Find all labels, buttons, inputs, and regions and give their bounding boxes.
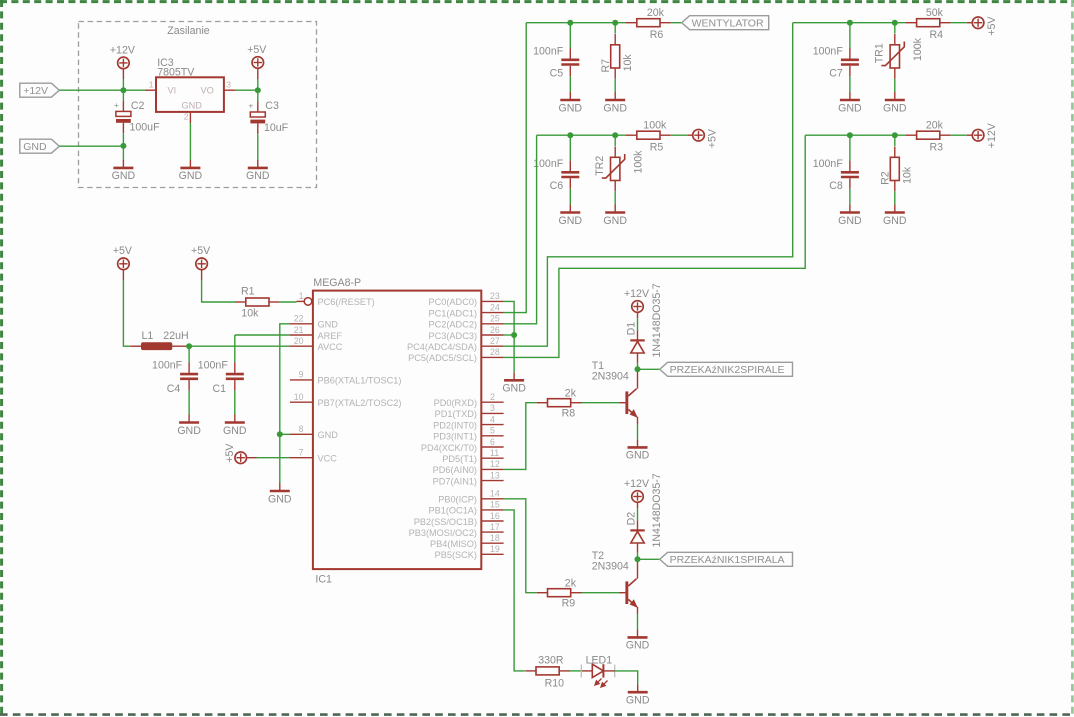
svg-text:+5V: +5V	[247, 44, 267, 56]
ground below C8	[838, 205, 862, 227]
svg-text:19: 19	[490, 544, 500, 554]
IC1 left pin 7 VCC	[290, 457, 313, 459]
svg-text:PC2(ADC2): PC2(ADC2)	[429, 320, 478, 330]
svg-text:6: 6	[490, 437, 495, 447]
ground below IC3	[179, 160, 203, 182]
svg-text:+: +	[114, 100, 119, 110]
svg-text:PC0(ADC0): PC0(ADC0)	[429, 297, 478, 307]
wire emitter of T1 to ground	[637, 417, 639, 424]
capacitor C8	[849, 135, 851, 160]
svg-text:2k: 2k	[565, 577, 577, 589]
wire PC4 net: pin 27 to row1-right	[504, 23, 793, 347]
wire PC2 net: row2-left down to pin 25	[504, 135, 537, 324]
power section frame	[79, 22, 317, 188]
svg-text:GND: GND	[626, 450, 650, 462]
svg-text:GND: GND	[179, 170, 203, 182]
wire collector of T2 to node	[637, 559, 639, 578]
svg-text:2: 2	[490, 392, 495, 402]
svg-text:100nF: 100nF	[533, 45, 564, 57]
svg-text:9: 9	[299, 370, 304, 380]
wire pin to base resistor R8	[504, 403, 537, 470]
wire R10 to LED1	[570, 670, 581, 672]
page border top (dashed green)	[0, 0, 1074, 3]
svg-text:7: 7	[299, 448, 304, 458]
svg-text:10uF: 10uF	[264, 122, 289, 134]
wire collector of T1 to node	[637, 369, 639, 388]
svg-text:PC1(ADC1): PC1(ADC1)	[429, 308, 478, 318]
IC1 right pin 6 PD4(XCK/T0)	[481, 446, 503, 448]
svg-text:15: 15	[490, 500, 500, 510]
IC1 right pin 19 PB5(SCK)	[481, 553, 503, 555]
ground below R2	[883, 205, 907, 227]
svg-text:C8: C8	[829, 180, 843, 192]
svg-text:PB5(SCK): PB5(SCK)	[435, 550, 477, 560]
ground below C6	[559, 205, 583, 227]
IC1 right pin 11 PD5(T1)	[481, 457, 503, 459]
wire D2 to +12V	[637, 520, 639, 530]
svg-text:C2: C2	[131, 100, 145, 112]
svg-text:20: 20	[294, 336, 304, 346]
svg-text:TR1: TR1	[874, 43, 886, 63]
wire D1 to +12V	[637, 330, 639, 340]
svg-text:8: 8	[299, 424, 304, 434]
svg-text:+12V: +12V	[624, 478, 650, 490]
svg-text:PB7(XTAL2/TOSC2): PB7(XTAL2/TOSC2)	[318, 398, 402, 408]
resistor R8 (2k)	[537, 399, 582, 407]
capacitor C7	[849, 23, 851, 48]
svg-text:R4: R4	[930, 29, 944, 41]
wire TR1 to ground	[894, 79, 896, 92]
wire R1 to RESET pin 1	[280, 301, 297, 303]
svg-text:PD7(AIN1): PD7(AIN1)	[433, 476, 477, 486]
svg-text:R7: R7	[600, 59, 612, 73]
svg-text:L1: L1	[142, 330, 154, 342]
wire R8 to base of T1	[582, 402, 620, 404]
svg-text:GND: GND	[559, 215, 583, 227]
IC1 left pin 21 AREF	[290, 334, 313, 336]
junction GND tag / C2	[120, 143, 126, 149]
IC1 left pin 22 GND	[290, 323, 313, 325]
svg-text:10: 10	[294, 392, 304, 402]
wire R5 to +5V	[671, 134, 687, 136]
transistor T1 2N3904	[625, 389, 637, 418]
connector tag WENTYLATOR	[682, 16, 769, 30]
svg-text:GND: GND	[502, 383, 526, 395]
svg-text:24: 24	[490, 302, 500, 312]
svg-text:R10: R10	[545, 677, 565, 689]
ground below C5	[559, 92, 583, 114]
svg-text:C1: C1	[212, 383, 226, 395]
svg-text:R2: R2	[879, 171, 891, 185]
ground below C7	[838, 92, 862, 114]
supply +5V (L1 feed)	[113, 245, 133, 269]
connector tag PRZEKAźNIK1SPIRALA	[660, 552, 793, 566]
wire C3 to ground	[257, 90, 259, 101]
wire net PC5 row (12V sense) horizontal	[805, 134, 906, 136]
ground below C2	[112, 160, 136, 182]
wire GND net pin22-pin8 vertical	[280, 324, 290, 483]
svg-text:+5V: +5V	[224, 443, 236, 463]
wire junction down to GND symbol	[122, 146, 124, 160]
ground for PC0/PC3 net	[502, 372, 526, 394]
svg-text:2N3904: 2N3904	[592, 371, 629, 383]
wire +12V tag to IC3 VI	[59, 89, 145, 91]
resistor R10 (330R)	[525, 667, 570, 675]
supply +5V (R4)	[972, 16, 998, 36]
svg-text:3: 3	[490, 403, 495, 413]
junction C8	[847, 132, 853, 138]
junction VO/+5V/C3	[255, 87, 261, 93]
wire +12V symbol down to VI net	[122, 69, 124, 80]
wire AREF pin 21 to C1	[235, 334, 290, 336]
svg-text:+: +	[248, 100, 253, 110]
svg-text:C7: C7	[829, 68, 843, 80]
svg-text:18: 18	[490, 533, 500, 543]
svg-text:16: 16	[490, 511, 500, 521]
svg-text:GND: GND	[838, 215, 862, 227]
junction C7	[847, 20, 853, 26]
ground below TR1	[883, 92, 907, 114]
svg-text:PD5(T1): PD5(T1)	[442, 454, 477, 464]
svg-text:PC3(ADC3): PC3(ADC3)	[429, 331, 478, 341]
thermistor TR2	[614, 135, 616, 146]
svg-text:+12V: +12V	[110, 44, 136, 56]
wire C1 to ground	[234, 391, 236, 415]
svg-text:Zasilanie: Zasilanie	[167, 25, 210, 37]
LED1 diode	[592, 664, 603, 677]
ground for IC1 GND net	[268, 483, 292, 505]
svg-text:C5: C5	[550, 68, 564, 80]
diode D1 1N4148	[637, 353, 639, 363]
wire R9 to base of T2	[582, 592, 620, 594]
ground below T1	[626, 439, 650, 461]
svg-text:PD0(RXD): PD0(RXD)	[434, 398, 477, 408]
IC1 right pin 3 PD1(TXD)	[481, 412, 503, 414]
svg-text:23: 23	[490, 291, 500, 301]
ground below C3	[246, 160, 270, 182]
wire pin 8 stub to GND net	[280, 433, 290, 435]
IC1 left pin 1 PC6(/RESET)	[297, 300, 305, 302]
svg-text:+5V: +5V	[113, 245, 133, 257]
svg-text:R8: R8	[562, 407, 576, 419]
svg-text:PD3(INT1): PD3(INT1)	[433, 432, 477, 442]
svg-text:+5V: +5V	[191, 245, 211, 257]
svg-text:100nF: 100nF	[533, 158, 564, 170]
ground below T2	[626, 629, 650, 651]
IC1 right pin 26 PC3(ADC3)	[481, 334, 503, 336]
capacitor C5	[569, 23, 571, 48]
svg-text:AREF: AREF	[318, 331, 343, 341]
supply +12V (R3)	[972, 122, 998, 148]
svg-text:100k: 100k	[643, 120, 667, 132]
svg-text:GND: GND	[559, 102, 583, 114]
wire pin 15 PB1 to R10	[504, 510, 525, 671]
svg-text:AVCC: AVCC	[318, 342, 343, 352]
svg-text:2N3904: 2N3904	[592, 561, 629, 573]
svg-text:GND: GND	[23, 141, 47, 153]
IC1 right pin 25 PC2(ADC2)	[481, 323, 503, 325]
svg-text:2: 2	[184, 112, 189, 122]
svg-text:R3: R3	[930, 141, 944, 153]
junction collector/D1/relay tag	[635, 366, 641, 372]
svg-text:PB3(MOSI/OC2): PB3(MOSI/OC2)	[409, 528, 477, 538]
capacitor C2	[114, 100, 131, 134]
svg-text:PD6(AIN0): PD6(AIN0)	[433, 465, 477, 475]
svg-text:4: 4	[490, 414, 495, 424]
IC1 right pin 12 PD6(AIN0)	[481, 468, 503, 470]
svg-text:PD4(XCK/T0): PD4(XCK/T0)	[421, 443, 477, 453]
IC1 right pin 17 PB3(MOSI/OC2)	[481, 531, 503, 533]
junction PC3/ground net	[511, 332, 517, 338]
svg-text:20k: 20k	[926, 120, 944, 132]
IC1 right pin 16 PB2(SS/OC1B)	[481, 520, 503, 522]
svg-text:PC4(ADC4/SDA): PC4(ADC4/SDA)	[407, 342, 477, 352]
svg-text:+12V: +12V	[986, 122, 998, 148]
junction TR1	[892, 20, 898, 26]
IC1 right pin 2 PD0(RXD)	[481, 401, 503, 403]
svg-text:PD1(TXD): PD1(TXD)	[435, 409, 477, 419]
wire node to relay tag	[638, 558, 660, 560]
svg-text:12: 12	[490, 459, 500, 469]
svg-text:LED1: LED1	[586, 654, 613, 666]
capacitor C4	[188, 346, 190, 362]
IC1 right pin 27 PC4(ADC4/SDA)	[481, 345, 503, 347]
svg-text:PRZEKAźNIK2SPIRALE: PRZEKAźNIK2SPIRALE	[670, 364, 785, 376]
capacitor C3	[248, 100, 265, 134]
junction TR2	[612, 132, 618, 138]
ground below TR2	[603, 205, 627, 227]
junction L1/C4/AVCC	[186, 343, 192, 349]
wire IC3 GND pin to ground	[189, 123, 191, 160]
wire C6 to ground	[569, 189, 571, 205]
supply +12V (T1)	[624, 288, 650, 312]
connector tag PRZEKAźNIK2SPIRALE	[660, 362, 793, 376]
svg-text:330R: 330R	[538, 654, 564, 666]
supply +5V (power section)	[247, 44, 267, 68]
resistor R6	[626, 19, 671, 27]
supply +5V (R5)	[693, 128, 719, 148]
svg-text:1: 1	[149, 80, 154, 90]
svg-text:VCC: VCC	[318, 454, 338, 464]
junction collector/D2/relay tag	[635, 556, 641, 562]
resistor R9 (2k)	[537, 589, 582, 597]
wire C8 to ground	[849, 189, 851, 205]
capacitor C1	[234, 335, 236, 362]
resistor R3	[906, 131, 951, 139]
supply +5V (R1 feed)	[191, 245, 211, 269]
svg-text:VI: VI	[168, 85, 177, 95]
wire +5V symbol down to node	[257, 68, 259, 79]
svg-text:PB0(ICP): PB0(ICP)	[438, 495, 477, 505]
wire R6 to tag	[671, 22, 682, 24]
svg-text:10k: 10k	[901, 166, 913, 184]
svg-text:GND: GND	[883, 102, 907, 114]
wire R4 to +5V	[951, 22, 967, 24]
svg-text:R1: R1	[241, 286, 255, 298]
wire PC0/PC3 net to ground	[504, 301, 514, 372]
svg-text:R6: R6	[650, 29, 664, 41]
svg-text:GND: GND	[626, 640, 650, 652]
wire L1 to AVCC pin 20	[189, 345, 290, 347]
IC1 left pin 10 PB7(XTAL2/TOSC2)	[290, 401, 313, 403]
junction C6	[567, 132, 573, 138]
svg-text:GND: GND	[626, 695, 650, 707]
svg-text:28: 28	[490, 347, 500, 357]
wire +5V to VCC pin 7	[246, 457, 256, 459]
connector tag GND (input)	[20, 139, 60, 153]
svg-text:IC1: IC1	[315, 574, 332, 586]
resistor R7	[614, 23, 616, 34]
wire TR2 to ground	[614, 191, 616, 204]
IC1 left pin 9 PB6(XTAL1/TOSC1)	[290, 379, 313, 381]
svg-text:1: 1	[299, 291, 304, 301]
svg-text:GND: GND	[318, 320, 339, 330]
wire +5V down to L1	[122, 270, 124, 280]
svg-text:25: 25	[490, 314, 500, 324]
svg-text:PB6(XTAL1/TOSC1): PB6(XTAL1/TOSC1)	[318, 376, 402, 386]
IC1 right pin 18 PB4(MISO)	[481, 542, 503, 544]
svg-text:22uH: 22uH	[163, 330, 188, 342]
wire net PC2 row (thermistor 2) horizontal	[537, 134, 626, 136]
resistor R4	[906, 19, 951, 27]
page border bottom (dashed dark gray-green)	[0, 713, 1074, 716]
wire +5V down to R1	[201, 270, 203, 280]
LED1 emission arrows	[595, 679, 608, 688]
svg-text:PB1(OC1A): PB1(OC1A)	[428, 506, 477, 516]
wire net PC4 row (thermistor 1) horizontal	[793, 22, 906, 24]
IC1 right pin 14 PB0(ICP)	[481, 498, 503, 500]
svg-text:GND: GND	[318, 430, 339, 440]
svg-text:C3: C3	[265, 100, 279, 112]
svg-text:3: 3	[226, 80, 231, 90]
IC1 right pin 4 PD2(INT0)	[481, 424, 503, 426]
svg-text:PC6(/RESET): PC6(/RESET)	[318, 297, 375, 307]
ground below C4	[177, 415, 201, 437]
svg-text:GND: GND	[603, 102, 627, 114]
IC1 left pin 20 AVCC	[290, 345, 313, 347]
svg-text:20k: 20k	[647, 7, 665, 19]
svg-text:27: 27	[490, 336, 500, 346]
svg-text:GND: GND	[112, 170, 136, 182]
svg-text:D2: D2	[625, 512, 637, 526]
svg-text:11: 11	[490, 448, 499, 458]
ground below R7	[603, 92, 627, 114]
wire PC5 net: pin 28 to row2-right	[504, 135, 806, 357]
svg-text:100k: 100k	[912, 37, 924, 61]
svg-text:13: 13	[490, 470, 500, 480]
svg-text:+5V: +5V	[986, 16, 998, 36]
svg-text:GND: GND	[883, 215, 907, 227]
svg-text:10k: 10k	[241, 307, 259, 319]
wire node to relay tag	[638, 368, 660, 370]
svg-text:D1: D1	[625, 322, 637, 336]
svg-text:PD2(INT0): PD2(INT0)	[433, 420, 477, 430]
junction R2	[892, 132, 898, 138]
svg-text:100nF: 100nF	[198, 360, 229, 372]
microcontroller IC1 MEGA8-P box	[313, 291, 481, 569]
IC1 right pin 23 PC0(ADC0)	[481, 300, 503, 302]
svg-text:PC5(ADC5/SCL): PC5(ADC5/SCL)	[408, 353, 477, 363]
LED1 pin tick marks	[580, 665, 582, 678]
inductor L1	[130, 345, 141, 347]
IC1 right pin 15 PB1(OC1A)	[481, 509, 503, 511]
IC1 left pin 8 GND	[290, 433, 313, 435]
resistor R5	[626, 131, 671, 139]
svg-text:10k: 10k	[622, 54, 634, 72]
svg-text:TR2: TR2	[594, 156, 606, 176]
IC1 right pin 13 PD7(AIN1)	[481, 480, 503, 482]
diode D2 1N4148	[637, 543, 639, 553]
wire LED1 cathode to ground	[603, 670, 614, 672]
svg-text:GND: GND	[182, 100, 203, 110]
svg-text:WENTYLATOR: WENTYLATOR	[692, 18, 764, 30]
svg-text:5: 5	[490, 426, 495, 436]
wire C5 to ground	[569, 76, 571, 92]
svg-text:PB4(MISO): PB4(MISO)	[430, 539, 477, 549]
svg-text:+5V: +5V	[707, 128, 719, 148]
supply +5V (VCC)	[224, 443, 246, 464]
thermistor TR1	[894, 23, 896, 34]
ground below C1	[223, 415, 247, 437]
svg-text:+12V: +12V	[624, 288, 650, 300]
svg-text:14: 14	[490, 489, 500, 499]
junction C5	[567, 20, 573, 26]
capacitor C6	[569, 135, 571, 160]
IC1 right pin 28 PC5(ADC5/SCL)	[481, 356, 503, 358]
svg-text:GND: GND	[246, 170, 270, 182]
wire R2 to ground	[894, 191, 896, 204]
svg-text:26: 26	[490, 325, 500, 335]
svg-text:+12V: +12V	[23, 85, 48, 97]
junction pin 8 / GND net	[277, 431, 283, 437]
svg-text:100uF: 100uF	[130, 122, 161, 134]
svg-text:21: 21	[294, 325, 304, 335]
svg-text:PB2(SS/OC1B): PB2(SS/OC1B)	[414, 517, 477, 527]
connector tag +12V (input)	[20, 83, 60, 97]
wire PC1 net: row1-left down to pin 24	[504, 23, 527, 313]
svg-text:GND: GND	[838, 102, 862, 114]
svg-text:GND: GND	[177, 425, 201, 437]
wire C4 to ground	[188, 391, 190, 415]
wire pin 26 stub to net	[504, 334, 514, 336]
svg-text:R9: R9	[562, 597, 576, 609]
svg-text:VO: VO	[201, 85, 214, 95]
svg-text:1N4148DO35-7: 1N4148DO35-7	[651, 473, 663, 547]
svg-text:2k: 2k	[565, 387, 577, 399]
wire emitter of T2 to ground	[637, 607, 639, 614]
supply +12V (power section)	[110, 44, 136, 68]
wire GND tag to C2 bottom junction	[59, 145, 123, 147]
page border right (dashed pale green)	[1071, 0, 1074, 717]
svg-text:R5: R5	[650, 141, 664, 153]
wire pin to base resistor R9	[504, 499, 537, 593]
wire R7 to ground	[614, 79, 616, 92]
junction R7	[612, 20, 618, 26]
svg-text:100nF: 100nF	[813, 158, 844, 170]
junction VI/+12V/C2	[120, 87, 126, 93]
wire R3 to +12V	[951, 134, 967, 136]
svg-text:50k: 50k	[926, 7, 944, 19]
ground below LED1	[626, 684, 650, 706]
svg-text:GND: GND	[223, 425, 247, 437]
svg-text:GND: GND	[268, 493, 292, 505]
wire C2 to GND junction	[122, 90, 124, 101]
supply +12V (T2)	[624, 478, 650, 502]
svg-text:MEGA8-P: MEGA8-P	[313, 277, 361, 289]
svg-text:C6: C6	[550, 180, 564, 192]
voltage regulator IC3 7805TV	[156, 77, 224, 112]
wire net PC1 row (fan threshold) horizontal	[526, 22, 626, 24]
